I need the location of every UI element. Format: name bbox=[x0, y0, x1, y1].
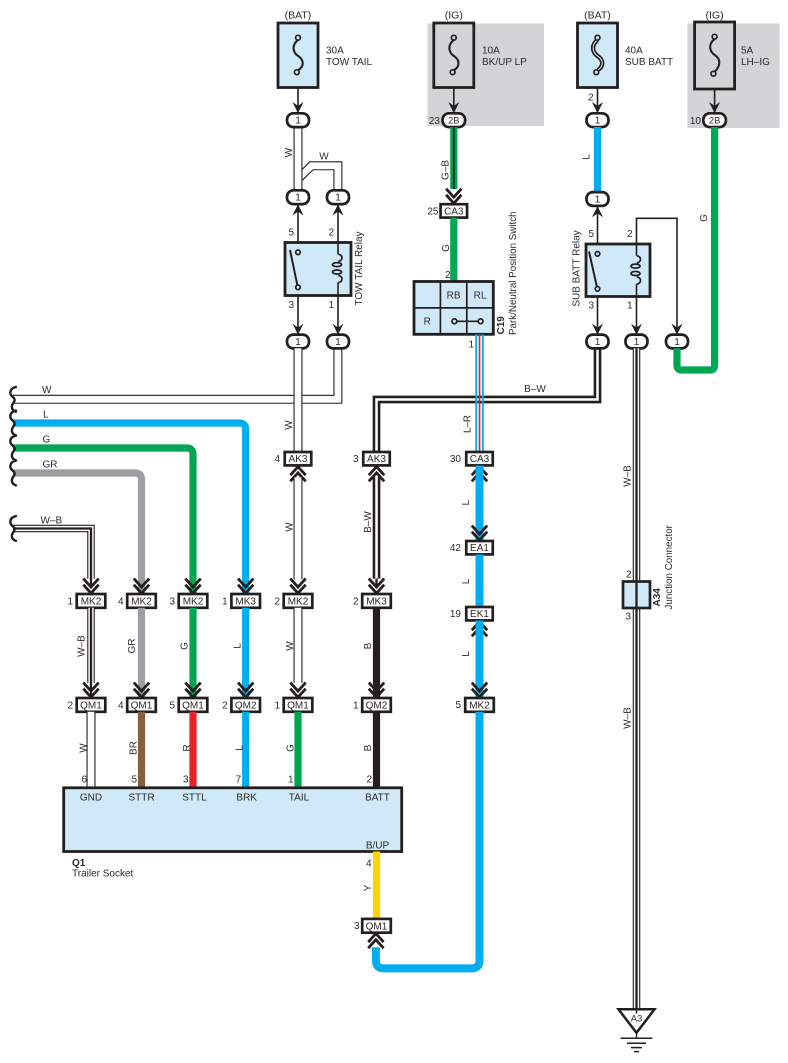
svg-text:CA3: CA3 bbox=[444, 206, 464, 217]
svg-text:(BAT): (BAT) bbox=[584, 10, 611, 22]
chevron below EK1 bbox=[472, 622, 487, 637]
svg-text:L: L bbox=[235, 745, 246, 751]
svg-text:MK3: MK3 bbox=[366, 596, 387, 607]
relay SUB BATT coil bbox=[631, 244, 640, 297]
svg-text:QM2: QM2 bbox=[235, 700, 257, 711]
svg-text:L: L bbox=[461, 499, 472, 505]
svg-text:LH–IG: LH–IG bbox=[741, 57, 770, 68]
wire L MK2 pin 5 down around to QM1 pin 3 bbox=[376, 712, 480, 969]
break symbol GR wire bbox=[10, 461, 16, 486]
svg-text:3: 3 bbox=[588, 301, 594, 312]
connector MK2 pin 2 bbox=[284, 594, 313, 608]
svg-text:MK2: MK2 bbox=[81, 596, 102, 607]
svg-text:QM2: QM2 bbox=[366, 700, 388, 711]
svg-text:L: L bbox=[461, 651, 472, 657]
trailer socket Q1 box bbox=[64, 788, 402, 852]
connector QM1 pin 1 bbox=[284, 698, 313, 712]
svg-text:4: 4 bbox=[366, 859, 372, 870]
svg-text:L: L bbox=[461, 578, 472, 584]
connector 1 below TOW TAIL relay pin 1 bbox=[327, 335, 349, 349]
chevron into EA1 bbox=[472, 526, 487, 541]
svg-text:MK2: MK2 bbox=[183, 596, 204, 607]
svg-text:B/UP: B/UP bbox=[366, 840, 390, 851]
ground symbol hatching bbox=[621, 1033, 653, 1052]
break symbol G wire bbox=[10, 436, 16, 461]
svg-text:W: W bbox=[42, 385, 52, 396]
connector QM1 pin 4 bbox=[127, 698, 156, 712]
svg-text:3: 3 bbox=[169, 597, 175, 608]
svg-text:BK/UP LP: BK/UP LP bbox=[482, 57, 527, 68]
svg-text:B–W: B–W bbox=[524, 384, 546, 395]
svg-text:19: 19 bbox=[450, 609, 462, 620]
wire Y trailer socket to QM1 pin 3 bbox=[373, 852, 380, 920]
connector 2B below fuse 10A bbox=[443, 113, 466, 127]
chevron into MK2 pin 3 bbox=[185, 579, 200, 594]
svg-text:1: 1 bbox=[627, 301, 633, 312]
chevron into CA3 pin 25 bbox=[446, 189, 461, 204]
chevron below QM1 pin 3 bbox=[368, 934, 383, 949]
fuse 40A SUB BATT bbox=[578, 23, 618, 88]
chevron into QM2 pin 2 bbox=[238, 683, 253, 698]
svg-text:Junction Connector: Junction Connector bbox=[664, 524, 675, 609]
wire TOW TAIL relay pin 1 output bbox=[337, 296, 339, 335]
svg-text:GR: GR bbox=[43, 460, 58, 471]
svg-text:1: 1 bbox=[295, 193, 301, 204]
wire GR entry to MK2 pin 4 bbox=[13, 473, 142, 594]
connector 1 below TOW TAIL relay pin 3 bbox=[287, 335, 309, 349]
wire W-B MK2 to QM1 pin 2 bbox=[87, 608, 95, 683]
svg-text:10: 10 bbox=[690, 116, 702, 127]
connector 1 below SUB BATT relay pin 3 bbox=[587, 335, 609, 349]
wire SUB BATT relay pin 3 output bbox=[597, 297, 599, 335]
svg-text:Trailer Socket: Trailer Socket bbox=[72, 869, 134, 880]
svg-text:W–B: W–B bbox=[77, 635, 88, 657]
svg-text:RL: RL bbox=[474, 290, 487, 301]
svg-text:2: 2 bbox=[274, 597, 280, 608]
svg-text:2: 2 bbox=[627, 229, 633, 240]
wire L fuse 40A to relay connector bbox=[594, 127, 601, 193]
connector QM2 pin 2 bbox=[231, 698, 260, 712]
connector CA3 pin 30 bbox=[466, 452, 493, 465]
wire W QM1 to trailer socket GND bbox=[87, 712, 96, 788]
svg-text:2: 2 bbox=[366, 775, 372, 786]
connector MK2 pin 5 bbox=[465, 698, 494, 712]
connector QM1 pin 5 bbox=[179, 698, 208, 712]
svg-text:2: 2 bbox=[353, 597, 359, 608]
connector 1 above TOW TAIL relay pin 5 bbox=[287, 190, 309, 204]
connector QM1 pin 2 bbox=[77, 698, 106, 712]
svg-text:23: 23 bbox=[429, 116, 441, 127]
svg-text:W: W bbox=[79, 743, 90, 753]
arrow below connector 1 to relay pin 5 bbox=[293, 204, 304, 215]
wire fuse 10A output lead bbox=[453, 88, 455, 113]
svg-text:1: 1 bbox=[595, 194, 601, 205]
svg-text:GND: GND bbox=[80, 793, 102, 804]
wire G fuse 5A down and to relay connector bbox=[677, 127, 715, 370]
wire GR MK2 to QM1 pin 4 bbox=[138, 608, 145, 698]
wire W relay pin 3 down to AK3 pin 4 bbox=[294, 348, 303, 452]
svg-text:C19: C19 bbox=[496, 316, 507, 335]
svg-text:TAIL: TAIL bbox=[289, 793, 310, 804]
relay TOW TAIL box bbox=[285, 243, 351, 296]
svg-text:RB: RB bbox=[447, 290, 461, 301]
svg-text:SUB BATT Relay: SUB BATT Relay bbox=[572, 230, 583, 306]
svg-text:EA1: EA1 bbox=[470, 543, 489, 554]
chevron into QM2 pin 1 bbox=[369, 683, 384, 698]
svg-text:A3: A3 bbox=[631, 1013, 643, 1024]
svg-text:B: B bbox=[363, 642, 374, 649]
svg-text:W: W bbox=[284, 420, 295, 430]
svg-text:G: G bbox=[180, 642, 191, 650]
svg-text:QM1: QM1 bbox=[182, 700, 204, 711]
svg-text:1: 1 bbox=[335, 337, 341, 348]
svg-text:1: 1 bbox=[67, 597, 73, 608]
svg-text:(BAT): (BAT) bbox=[285, 10, 312, 22]
wire W-B SUB BATT relay pin 1 to ground bbox=[633, 348, 641, 1009]
svg-text:W–B: W–B bbox=[623, 707, 634, 729]
wire fuse 5A output lead bbox=[714, 89, 716, 112]
svg-text:42: 42 bbox=[450, 543, 462, 554]
svg-text:A34: A34 bbox=[652, 588, 663, 607]
relay TOW TAIL switch contact bbox=[290, 250, 300, 290]
svg-text:EK1: EK1 bbox=[470, 609, 489, 620]
connector QM2 pin 1 bbox=[362, 698, 391, 712]
chevron into QM1 pin 2 bbox=[83, 683, 98, 698]
svg-text:2: 2 bbox=[588, 93, 594, 104]
svg-text:2: 2 bbox=[445, 270, 451, 281]
svg-text:Y: Y bbox=[363, 884, 374, 891]
wire B QM2 to trailer socket BATT bbox=[373, 712, 380, 788]
svg-text:2: 2 bbox=[626, 570, 632, 581]
wire G QM1 pin1 to trailer socket TAIL bbox=[294, 712, 301, 788]
svg-text:GR: GR bbox=[127, 639, 138, 654]
svg-text:Park/Neutral Position Switch: Park/Neutral Position Switch bbox=[508, 211, 519, 335]
svg-text:MK3: MK3 bbox=[235, 596, 256, 607]
arrow below connector to SUB BATT relay pin 5 bbox=[592, 206, 603, 217]
svg-text:G: G bbox=[699, 214, 710, 222]
wire SUB BATT relay pin 2 jumper to connector bbox=[637, 218, 678, 334]
svg-text:B–W: B–W bbox=[363, 511, 374, 533]
wire stripe through A34 bbox=[635, 582, 637, 609]
svg-text:(IG): (IG) bbox=[445, 10, 463, 22]
chevron below CA3 pin 30 bbox=[472, 467, 487, 482]
svg-text:2B: 2B bbox=[709, 116, 720, 126]
svg-text:TOW TAIL Relay: TOW TAIL Relay bbox=[354, 231, 365, 305]
svg-text:W: W bbox=[285, 641, 296, 651]
svg-text:25: 25 bbox=[427, 207, 439, 218]
fuse 30A TOW TAIL bbox=[278, 23, 318, 88]
junction connector A34 bbox=[623, 582, 650, 609]
chevron into MK3 pin 1 bbox=[238, 579, 253, 594]
wire fuse 30A output lead bbox=[297, 88, 299, 113]
wire L CA3 to EA1 bbox=[476, 466, 484, 542]
svg-text:W–B: W–B bbox=[41, 516, 63, 527]
fuse 5A LH-IG bbox=[695, 22, 735, 89]
chevron into MK3 pin 2 bbox=[369, 579, 384, 594]
svg-text:30A: 30A bbox=[326, 45, 344, 56]
ground A3 triangle bbox=[619, 1009, 655, 1033]
chevron below AK3 pin 3 bbox=[369, 467, 384, 482]
arrow relay pin 3 into connector bbox=[293, 324, 304, 335]
wire B-W AK3 pin3 to MK3 pin 2 bbox=[373, 477, 381, 578]
connector EA1 pin 42 bbox=[466, 541, 493, 554]
svg-text:1: 1 bbox=[295, 116, 301, 127]
svg-text:W: W bbox=[285, 522, 296, 532]
svg-text:40A: 40A bbox=[625, 45, 643, 56]
chevron into QM1 pin 4 bbox=[134, 683, 149, 698]
wire G entry to MK2 pin 3 bbox=[13, 448, 193, 594]
svg-text:1: 1 bbox=[595, 116, 601, 127]
svg-text:MK2: MK2 bbox=[469, 700, 490, 711]
svg-text:AK3: AK3 bbox=[367, 454, 386, 465]
wire L entry to MK3 pin 1 bbox=[13, 423, 246, 594]
svg-text:3: 3 bbox=[353, 454, 359, 465]
break symbol W wire bbox=[10, 387, 16, 412]
svg-text:G: G bbox=[43, 435, 51, 446]
svg-text:3: 3 bbox=[354, 921, 360, 932]
svg-text:3: 3 bbox=[288, 300, 294, 311]
svg-text:W: W bbox=[284, 147, 295, 157]
svg-text:L: L bbox=[233, 643, 244, 649]
svg-text:G: G bbox=[441, 244, 452, 252]
svg-text:SUB BATT: SUB BATT bbox=[625, 57, 673, 68]
connector EK1 pin 19 bbox=[466, 607, 493, 620]
connector 1 below fuse 40A bbox=[587, 113, 609, 127]
wire SUB BATT relay pin 5 lead bbox=[597, 206, 599, 244]
relay SUB BATT switch contact bbox=[589, 252, 600, 292]
svg-text:W: W bbox=[319, 152, 329, 163]
chevron into QM1 pin 5 bbox=[185, 683, 200, 698]
svg-text:QM1: QM1 bbox=[80, 700, 102, 711]
svg-text:R: R bbox=[182, 744, 193, 751]
svg-text:G: G bbox=[286, 744, 297, 752]
connector CA3 pin 25 bbox=[441, 204, 468, 217]
svg-text:3: 3 bbox=[625, 612, 631, 623]
connector MK2 pin 1 bbox=[77, 594, 106, 608]
break symbol L wire bbox=[10, 411, 16, 436]
chevron below AK3 pin 4 bbox=[290, 467, 305, 482]
connector 1 below SUB BATT relay pin 1 bbox=[626, 335, 648, 349]
svg-text:5: 5 bbox=[455, 700, 461, 711]
arrow into connector 2B bbox=[448, 102, 459, 113]
wire BR QM1 to trailer socket STTR bbox=[138, 712, 145, 788]
svg-text:5: 5 bbox=[131, 775, 137, 786]
svg-text:1: 1 bbox=[288, 775, 294, 786]
svg-text:2B: 2B bbox=[448, 116, 459, 126]
svg-text:STTR: STTR bbox=[128, 793, 154, 804]
arrow into connector 1 below fuse 30A bbox=[293, 102, 304, 113]
svg-text:BR: BR bbox=[129, 741, 140, 755]
wire branch W of fuse 30A output bbox=[299, 166, 338, 190]
wire B MK3 to QM2 bbox=[373, 608, 380, 698]
svg-text:AK3: AK3 bbox=[289, 454, 308, 465]
arrow into connector 1 below fuse 40A bbox=[592, 102, 603, 113]
connector MK3 pin 2 bbox=[362, 594, 391, 608]
wire TOW TAIL relay pin 3 output bbox=[297, 296, 299, 335]
connector MK2 pin 3 bbox=[179, 594, 208, 608]
wire W-B entry to MK2 pin 1 bbox=[13, 529, 91, 579]
connector QM1 pin 3 bbox=[362, 919, 391, 933]
chevron into MK2 pin 1 bbox=[83, 579, 98, 594]
chevron into MK2 pin 5 bbox=[472, 683, 487, 698]
svg-text:1: 1 bbox=[634, 337, 640, 348]
arrow into connector 2B below fuse 5A bbox=[709, 102, 720, 113]
chevron into MK2 pin 4 bbox=[134, 579, 149, 594]
relay SUB BATT box bbox=[586, 244, 650, 297]
wire W AK3 pin 4 to MK2 pin 2 bbox=[294, 477, 303, 579]
svg-text:MK2: MK2 bbox=[288, 596, 309, 607]
wire L MK3 to QM2 pin 2 bbox=[242, 608, 249, 698]
svg-text:30: 30 bbox=[450, 454, 462, 465]
connector 1 above SUB BATT relay pin 5 bbox=[587, 192, 609, 206]
connector AK3 pin 3 bbox=[363, 452, 390, 465]
wire G from CA3 to park/neutral switch bbox=[450, 218, 457, 282]
relay TOW TAIL coil bbox=[333, 243, 342, 296]
svg-text:7: 7 bbox=[236, 775, 242, 786]
svg-text:BRK: BRK bbox=[236, 793, 257, 804]
arrow SUB BATT relay pin 3 into connector bbox=[592, 324, 603, 335]
chevron into QM1 pin 1 bbox=[290, 683, 305, 698]
svg-text:L: L bbox=[43, 410, 49, 421]
wire L EA1 to EK1 bbox=[476, 555, 484, 608]
wire SUB BATT relay pin 1 output bbox=[636, 297, 638, 335]
svg-text:1: 1 bbox=[222, 597, 228, 608]
svg-text:QM1: QM1 bbox=[287, 700, 309, 711]
wire B-W from SUB BATT relay pin 3 to AK3 pin 3 bbox=[377, 348, 598, 452]
svg-text:2: 2 bbox=[328, 227, 334, 238]
switch C19 park/neutral position box bbox=[414, 282, 493, 335]
svg-text:B: B bbox=[363, 744, 374, 751]
arrow relay pin 1 into connector bbox=[333, 324, 344, 335]
svg-text:(IG): (IG) bbox=[706, 10, 724, 22]
wire W fuse 30A to ellipses bbox=[294, 127, 303, 191]
svg-text:G–B: G–B bbox=[441, 160, 452, 180]
svg-text:5A: 5A bbox=[741, 45, 754, 56]
wire G-B from 2B to CA3 bbox=[450, 127, 457, 189]
svg-text:6: 6 bbox=[81, 775, 87, 786]
svg-text:5: 5 bbox=[169, 701, 175, 712]
svg-text:Q1: Q1 bbox=[72, 858, 86, 869]
fuse 10A BK/UP LP bbox=[434, 23, 474, 88]
arrow below connector 1 to relay pin 2 bbox=[333, 204, 344, 215]
wire TOW TAIL relay pin 2 lead bbox=[337, 204, 339, 242]
arrow jumper into connector above green wire bbox=[672, 324, 683, 335]
connector 1 at green wire to relay pin 2 bbox=[666, 335, 688, 349]
svg-text:L–R: L–R bbox=[463, 415, 474, 433]
svg-text:1: 1 bbox=[468, 340, 474, 351]
wire L QM2 to trailer socket BRK bbox=[242, 712, 249, 788]
svg-text:2: 2 bbox=[67, 701, 73, 712]
wire fuse 40A output lead bbox=[597, 88, 599, 113]
connector 1 below fuse 30A bbox=[287, 113, 309, 127]
wire W MK2 pin2 to QM1 pin1 bbox=[294, 608, 303, 683]
wire R QM1 to trailer socket STTL bbox=[189, 712, 196, 788]
connector MK3 pin 1 bbox=[231, 594, 260, 608]
break symbol W-B wire bbox=[10, 516, 16, 541]
connector 1 above TOW TAIL relay pin 2 bbox=[327, 190, 349, 204]
svg-text:QM1: QM1 bbox=[131, 700, 153, 711]
wire W from harness break to TOW TAIL relay pin 1 ellipse bbox=[13, 348, 338, 399]
svg-text:4: 4 bbox=[118, 597, 124, 608]
svg-text:10A: 10A bbox=[482, 45, 500, 56]
svg-text:5: 5 bbox=[588, 229, 594, 240]
wire TOW TAIL relay pin 5 lead bbox=[297, 204, 299, 242]
svg-text:MK2: MK2 bbox=[131, 596, 152, 607]
svg-text:R: R bbox=[424, 317, 431, 328]
connector 2B below fuse 5A bbox=[703, 113, 726, 127]
svg-text:1: 1 bbox=[295, 337, 301, 348]
svg-text:L: L bbox=[582, 154, 593, 160]
svg-text:1: 1 bbox=[595, 337, 601, 348]
wire L-R from C19 pin 1 to CA3 pin 30 bbox=[476, 334, 483, 452]
svg-text:1: 1 bbox=[353, 701, 359, 712]
svg-text:1: 1 bbox=[335, 193, 341, 204]
switch C19 contact symbol bbox=[452, 319, 483, 324]
svg-text:W–B: W–B bbox=[623, 465, 634, 487]
svg-text:CA3: CA3 bbox=[470, 454, 490, 465]
svg-text:TOW TAIL: TOW TAIL bbox=[326, 57, 373, 68]
wire G MK2 to QM1 pin 5 bbox=[189, 608, 196, 698]
arrow SUB BATT relay pin 1 into connector bbox=[631, 324, 642, 335]
svg-text:QM1: QM1 bbox=[366, 921, 388, 932]
svg-text:2: 2 bbox=[222, 701, 228, 712]
wire L EK1 to MK2 pin 5 bbox=[476, 621, 484, 699]
gray junction block behind 10A BK/UP LP fuse bbox=[428, 24, 545, 127]
svg-text:4: 4 bbox=[118, 701, 124, 712]
svg-text:3: 3 bbox=[183, 775, 189, 786]
connector MK2 pin 4 bbox=[127, 594, 156, 608]
svg-text:4: 4 bbox=[274, 454, 280, 465]
svg-text:5: 5 bbox=[288, 227, 294, 238]
svg-text:1: 1 bbox=[674, 337, 680, 348]
svg-text:1: 1 bbox=[328, 300, 334, 311]
svg-text:BATT: BATT bbox=[365, 793, 390, 804]
connector AK3 pin 4 bbox=[285, 452, 312, 465]
svg-text:STTL: STTL bbox=[182, 793, 207, 804]
svg-text:1: 1 bbox=[274, 701, 280, 712]
chevron into MK2 pin 2 bbox=[290, 579, 305, 594]
gray junction block behind 5A LH-IG fuse bbox=[687, 24, 779, 129]
